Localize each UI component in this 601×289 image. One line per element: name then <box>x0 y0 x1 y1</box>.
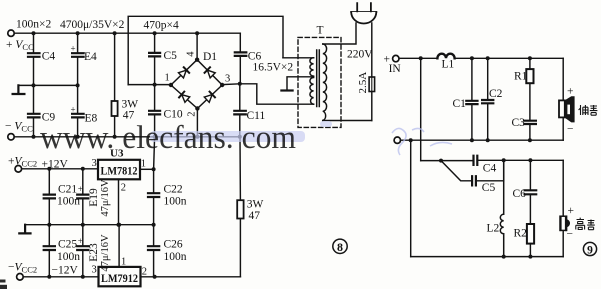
capacitor C4 <box>33 33 35 85</box>
wire center tap <box>287 77 314 90</box>
svg-text:C5: C5 <box>482 182 496 194</box>
svg-text:E23: E23 <box>88 243 100 262</box>
bridge rectifier D1 <box>171 60 222 109</box>
wire tweeter drop <box>562 160 564 256</box>
svg-text:R2: R2 <box>514 228 528 240</box>
svg-text:+: + <box>567 86 574 98</box>
capacitor E4 <box>77 33 79 85</box>
wire primary top <box>323 23 356 44</box>
regulator U3 LM7812 <box>98 160 140 180</box>
wire bridge plus <box>196 33 198 60</box>
resistor 3W47 bleeder <box>114 33 116 137</box>
svg-text:T: T <box>317 25 324 37</box>
capacitor C22 <box>153 198 155 225</box>
wire tweeter feed drop <box>420 58 422 160</box>
svg-text:C10: C10 <box>164 109 183 121</box>
svg-text:C21: C21 <box>58 183 77 195</box>
resistor 3W47 lower <box>239 137 241 277</box>
watermark blue blobs <box>150 121 332 142</box>
svg-text:47: 47 <box>249 210 261 222</box>
capacitor C6 zobel <box>529 160 531 224</box>
svg-text:E4: E4 <box>84 51 97 63</box>
svg-text:D1: D1 <box>203 51 217 63</box>
label woofer diyin <box>579 105 598 115</box>
svg-text:8: 8 <box>337 240 343 254</box>
svg-text:3W: 3W <box>247 199 264 211</box>
transformer secondary winding <box>310 58 314 76</box>
svg-text:3: 3 <box>92 158 97 169</box>
svg-text:C4: C4 <box>42 50 56 62</box>
ground lower <box>19 225 30 234</box>
node IN plus terminal <box>393 55 399 61</box>
svg-text:3: 3 <box>92 265 97 276</box>
diode D1a <box>178 67 189 78</box>
corner mark <box>0 280 7 289</box>
wire C5 diagonal <box>441 161 472 181</box>
label tweeter gaoyin <box>576 218 595 230</box>
svg-text:R1: R1 <box>514 71 528 83</box>
svg-text:C6: C6 <box>513 188 527 200</box>
wire -12V rail <box>23 276 240 278</box>
node +Vcc terminal <box>8 30 14 36</box>
svg-text:C22: C22 <box>164 183 183 195</box>
capacitor E23 <box>82 225 84 277</box>
svg-text:LM7812: LM7812 <box>101 164 138 178</box>
node -Vcc2 terminal <box>17 274 24 281</box>
svg-text:2.5A: 2.5A <box>357 72 369 94</box>
wire bridge AC left <box>128 84 171 86</box>
wire +12V rail <box>22 168 98 170</box>
capacitor C11 <box>239 84 241 137</box>
svg-text:−VCC2: −VCC2 <box>8 262 37 275</box>
wire primary bottom <box>323 120 372 122</box>
node circled 9 <box>583 242 596 256</box>
AC plug <box>351 11 376 13</box>
svg-text:+12V: +12V <box>42 159 69 171</box>
capacitor C26 <box>153 225 155 277</box>
junction dots left section <box>32 31 242 139</box>
svg-text:C5: C5 <box>164 50 178 62</box>
capacitor C9 <box>33 85 35 136</box>
wire tweeter minus drop <box>410 140 412 256</box>
svg-text:3: 3 <box>225 74 230 85</box>
capacitor C21 <box>48 169 50 225</box>
node +Vcc2 terminal <box>15 166 22 173</box>
svg-text:100n: 100n <box>164 196 187 208</box>
wire 7812 ground pin <box>118 179 120 224</box>
wire 7912 ground pin <box>118 225 120 267</box>
diode D1d <box>204 92 215 103</box>
node circled 8 <box>333 239 347 254</box>
svg-text:1: 1 <box>165 73 170 84</box>
svg-text:+: + <box>78 236 83 246</box>
svg-text:9: 9 <box>587 244 593 256</box>
svg-text:100n×2: 100n×2 <box>16 19 51 31</box>
resistor R1 <box>529 58 531 120</box>
inductor L1 <box>437 54 454 59</box>
node IN minus terminal <box>394 137 400 143</box>
svg-text:470p×4: 470p×4 <box>144 20 179 32</box>
watermark blue squiggle <box>392 128 452 155</box>
transformer core <box>317 50 320 107</box>
resistor R2 <box>527 224 534 244</box>
wire secondary top lead <box>283 57 314 59</box>
wire lower ground rail <box>25 224 154 226</box>
svg-text:220V: 220V <box>347 49 373 61</box>
wire bridge minus <box>196 109 198 137</box>
svg-text:47μ/16V: 47μ/16V <box>100 179 111 217</box>
wire bridge AC right to secondary <box>222 84 313 104</box>
wire highpass input <box>421 160 474 162</box>
wire ground rail <box>18 84 77 86</box>
wire woofer drop <box>562 58 564 140</box>
svg-text:C25: C25 <box>58 238 77 250</box>
svg-text:L2: L2 <box>487 223 500 235</box>
svg-text:+: + <box>78 184 83 194</box>
capacitor C25 <box>48 225 50 277</box>
svg-text:+: + <box>568 205 575 217</box>
ground center tap <box>281 89 292 91</box>
capacitor C5 highpass <box>472 176 476 185</box>
wire 7812 output <box>140 168 154 170</box>
svg-text:2: 2 <box>187 112 198 117</box>
svg-text:4700μ/35V×2: 4700μ/35V×2 <box>60 19 125 31</box>
svg-text:C4: C4 <box>483 163 497 175</box>
inductor L2 <box>500 160 503 256</box>
svg-text:2: 2 <box>121 183 126 194</box>
svg-text:+: + <box>71 44 76 54</box>
svg-text:C2: C2 <box>489 88 503 100</box>
svg-text:100n: 100n <box>57 251 80 263</box>
svg-text:LM7912: LM7912 <box>101 271 138 285</box>
speaker woofer <box>559 100 565 117</box>
svg-text:E19: E19 <box>88 188 100 207</box>
svg-text:C3: C3 <box>512 117 526 129</box>
svg-text:+ VCC: + VCC <box>6 39 34 52</box>
svg-text:100n: 100n <box>57 196 80 208</box>
diode D1c <box>179 92 190 103</box>
svg-text:4: 4 <box>186 51 197 57</box>
svg-text:www. elecfans. com: www. elecfans. com <box>40 120 296 156</box>
capacitor E8 <box>77 85 79 136</box>
svg-text:16.5V×2: 16.5V×2 <box>253 61 294 73</box>
svg-text:1: 1 <box>121 256 126 267</box>
svg-text:C1: C1 <box>453 98 467 110</box>
svg-text:C26: C26 <box>164 238 183 250</box>
svg-text:−: − <box>567 229 574 241</box>
wire crossover bottom rail <box>411 256 564 258</box>
capacitor C5 <box>154 33 156 84</box>
capacitor C10 <box>154 85 156 137</box>
wire +Vcc top rail <box>14 32 240 34</box>
regulator LM7912 <box>99 267 141 286</box>
capacitor E19 <box>82 169 84 225</box>
svg-text:−12V: −12V <box>52 265 79 277</box>
ground <box>13 85 25 94</box>
capacitor C2 <box>487 58 489 140</box>
capacitor C6 <box>239 33 241 84</box>
svg-text:100n: 100n <box>164 251 187 263</box>
wire crossover mid rail <box>401 139 564 141</box>
wire 7812 input drop <box>154 137 155 193</box>
wire mains right <box>371 23 373 121</box>
transformer T dashed box <box>298 37 341 127</box>
diode D1b <box>205 67 216 78</box>
svg-text:47μ/16V: 47μ/16V <box>100 234 111 272</box>
wire secondary feed top line <box>128 16 283 84</box>
fuse 2.5A <box>369 77 375 92</box>
svg-text:+VCC2: +VCC2 <box>8 156 37 169</box>
svg-text:−: − <box>567 124 574 136</box>
speaker tweeter <box>560 216 567 230</box>
wire crossover top rail <box>399 57 563 59</box>
junction dots lower section <box>47 167 156 279</box>
svg-text:− VCC: − VCC <box>5 121 33 134</box>
svg-text:1: 1 <box>141 159 146 170</box>
transformer primary winding <box>323 44 327 120</box>
junction dots right section <box>409 56 533 258</box>
svg-text:L1: L1 <box>442 59 455 71</box>
wire -Vcc bottom rail <box>14 136 239 138</box>
node -Vcc terminal <box>8 134 14 140</box>
capacitor C1 <box>471 58 473 140</box>
svg-text:IN: IN <box>389 63 402 75</box>
capacitor C4 highpass <box>474 156 478 165</box>
svg-text:2: 2 <box>142 267 147 278</box>
svg-text:+: + <box>71 105 76 115</box>
capacitor C3 <box>529 125 531 140</box>
